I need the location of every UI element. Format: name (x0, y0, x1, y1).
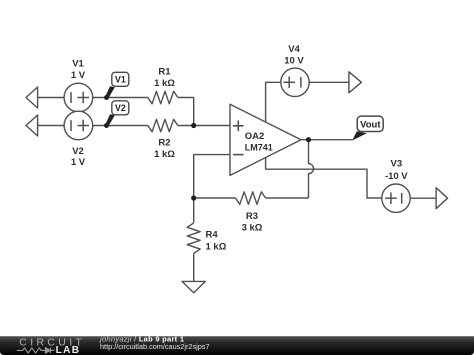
ground (right of V3) (436, 188, 448, 209)
op-amp - input symbol (233, 154, 244, 156)
label V3 value (385, 159, 408, 183)
footer logo resistor-diode wire (17, 348, 55, 353)
wire R2 to op-amp + input (178, 125, 230, 127)
wire R4 to ground (193, 253, 195, 281)
svg-text:R2: R2 (158, 138, 170, 149)
svg-text:http://circuitlab.com/caus2jr2: http://circuitlab.com/caus2jr2sjps7 (100, 342, 210, 351)
ground (right of V4) (349, 72, 362, 93)
voltage source V1 (64, 83, 93, 112)
resistor R1 (148, 91, 178, 104)
svg-text:1 kΩ: 1 kΩ (206, 241, 227, 252)
node A junction dot (R1/R2 to + input) (191, 123, 196, 128)
svg-text:V2: V2 (72, 146, 84, 157)
voltage source V2 (64, 111, 93, 140)
op-amp + input symbol (233, 121, 244, 132)
wire V2+ to R2 (93, 125, 148, 127)
wire V1+ to R1 (93, 97, 148, 99)
svg-text:R3: R3 (246, 211, 258, 222)
footer bar (0, 336, 474, 355)
svg-text:1 V: 1 V (71, 157, 86, 168)
wire op-amp V- pin to V3 (266, 157, 382, 198)
label V2 value (71, 146, 86, 168)
svg-text:V2: V2 (115, 103, 126, 113)
svg-text:OA2: OA2 (245, 131, 265, 142)
svg-text:R1: R1 (158, 67, 171, 78)
svg-text:V3: V3 (390, 159, 402, 170)
op-amp U1 body (230, 104, 301, 175)
svg-text:Vout: Vout (360, 119, 381, 130)
ground (below R4) (182, 281, 205, 292)
svg-text:1 kΩ: 1 kΩ (154, 78, 175, 89)
feedback node junction dot (191, 195, 196, 200)
svg-text:V4: V4 (288, 44, 300, 55)
label R4 value (206, 230, 227, 253)
label R1 value (154, 67, 175, 90)
svg-text:-10 V: -10 V (385, 171, 408, 182)
ground (left of V2) (26, 115, 64, 136)
resistor R3 (236, 192, 266, 205)
ground (left of V1) (26, 87, 64, 108)
resistor R4 (187, 223, 200, 254)
wire feedback node to R4 (193, 198, 195, 223)
voltage source V4 (281, 68, 309, 96)
resistor R2 (148, 119, 178, 132)
wire V4 to op-amp V+ pin (266, 82, 281, 122)
wire V4 to ground (309, 81, 349, 83)
label R3 value (242, 211, 263, 233)
svg-text:R4: R4 (206, 230, 219, 241)
svg-text:V1: V1 (72, 59, 84, 70)
wire output branch with hop over supply wire (309, 140, 314, 198)
wire op-amp output to Vout (301, 139, 353, 141)
svg-text:V1: V1 (115, 75, 126, 85)
svg-text:1 kΩ: 1 kΩ (154, 149, 175, 160)
wire - input to feedback node (194, 155, 230, 198)
wire R1 to node A (178, 98, 194, 126)
voltage source V3 (382, 184, 410, 212)
wire R3 to output branch (266, 197, 309, 199)
svg-text:1 V: 1 V (71, 70, 86, 81)
net flag V2 (104, 101, 129, 128)
net flag Vout (352, 116, 383, 140)
label V1 value (71, 59, 86, 82)
label op-amp OA2 LM741 (245, 131, 273, 153)
wire V3 to ground (410, 197, 436, 199)
svg-text:LAB: LAB (56, 345, 81, 355)
svg-text:LM741: LM741 (245, 142, 273, 152)
label R2 value (154, 138, 175, 161)
label V4 value (284, 44, 304, 66)
svg-text:3 kΩ: 3 kΩ (242, 222, 263, 233)
output node junction dot (306, 137, 311, 142)
net flag V1 (104, 72, 129, 100)
svg-text:10 V: 10 V (284, 55, 304, 66)
wire feedback node to R3 (194, 197, 236, 199)
